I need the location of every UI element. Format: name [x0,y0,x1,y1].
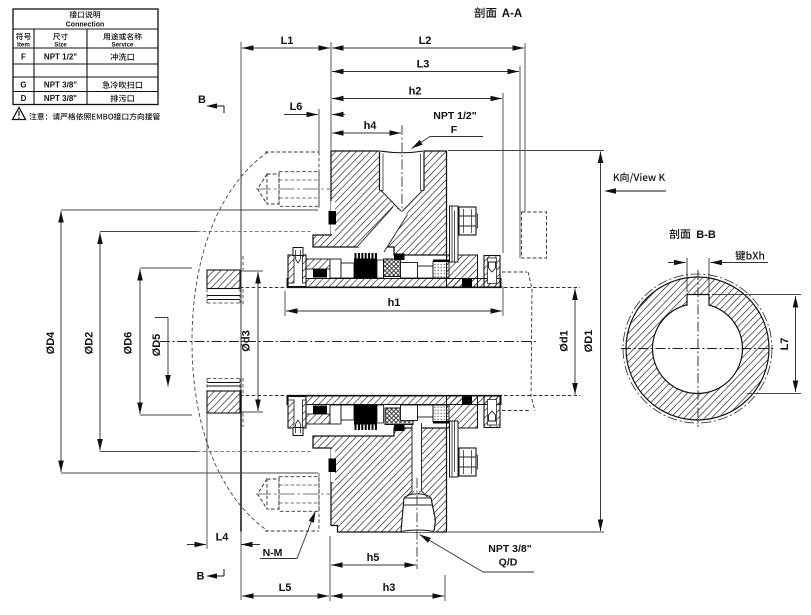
svg-text:Ød3: Ød3 [241,330,253,351]
svg-text:h3: h3 [383,582,396,594]
svg-text:NPT 1/2": NPT 1/2" [44,53,77,62]
svg-text:A-A: A-A [502,8,522,20]
svg-text:L4: L4 [216,532,230,544]
svg-text:Connection: Connection [66,22,105,29]
svg-text:L2: L2 [419,35,432,47]
svg-text:ØD4: ØD4 [45,331,57,355]
svg-text:NPT 3/8": NPT 3/8" [44,94,77,103]
svg-text:F: F [21,53,26,62]
svg-text:Q/D: Q/D [499,557,518,569]
svg-text:Item: Item [17,42,30,49]
svg-text:ØD6: ØD6 [123,332,135,355]
svg-text:L3: L3 [417,59,430,71]
svg-text:ØD1: ØD1 [583,330,595,353]
svg-text:h1: h1 [388,297,401,309]
svg-text:B-B: B-B [696,229,716,241]
svg-text:h2: h2 [409,86,422,98]
svg-text:L6: L6 [290,101,303,113]
svg-text:ØD5: ØD5 [151,334,163,357]
svg-text:Ød1: Ød1 [559,330,571,351]
svg-text:B: B [197,571,205,583]
svg-text:N-M: N-M [263,547,283,559]
svg-text:G: G [20,81,26,90]
svg-text:F: F [451,124,458,136]
svg-text:h5: h5 [367,552,380,564]
svg-text:Size: Size [54,42,67,49]
svg-text:NPT 3/8": NPT 3/8" [44,81,77,90]
svg-text:B: B [198,94,206,106]
svg-text:h4: h4 [364,120,378,132]
svg-text:L1: L1 [281,35,294,47]
svg-text:L5: L5 [279,582,292,594]
svg-text:L7: L7 [779,338,791,351]
svg-text:D: D [21,94,27,103]
svg-text:ØD2: ØD2 [84,332,96,355]
svg-text:NPT 3/8": NPT 3/8" [488,543,532,555]
svg-text:NPT 1/2": NPT 1/2" [433,110,477,122]
svg-text:Service: Service [111,42,134,49]
